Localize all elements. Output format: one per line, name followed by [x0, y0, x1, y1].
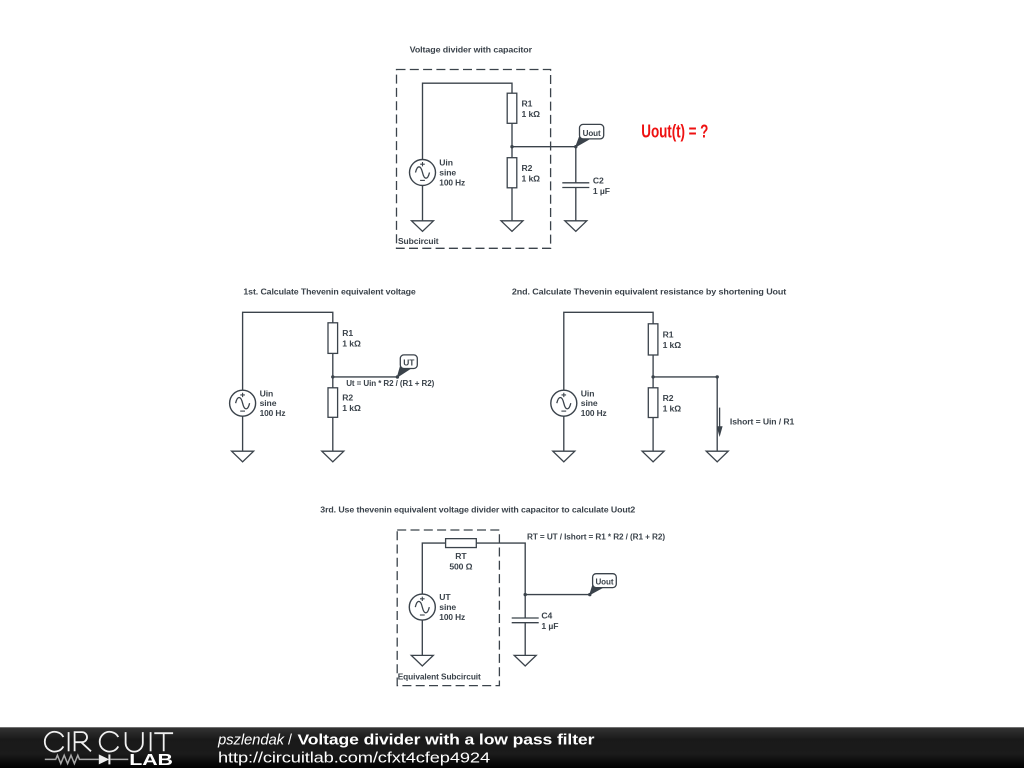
wire node down to C4: [524, 595, 526, 618]
voltage source V3 Uin: [551, 390, 577, 416]
schematic title circuit 2: [243, 287, 416, 297]
wire node to R2 top circuit 2: [332, 377, 334, 388]
flag Uout circuit 4: [590, 574, 617, 595]
svg-text:RT = UT / Ishort = R1 * R2 / (: RT = UT / Ishort = R1 * R2 / (R1 + R2): [527, 532, 665, 542]
ground under V3: [553, 451, 575, 462]
wire V4 bottom to ground: [421, 620, 423, 655]
junction node circuit 3: [651, 375, 654, 378]
annotation red Uout(t) = ?: [641, 121, 708, 142]
svg-text:Uout: Uout: [595, 577, 613, 587]
svg-text:R1: R1: [342, 328, 353, 338]
annotation RT formula: [527, 532, 665, 542]
wire V1 bottom to ground: [422, 186, 424, 221]
wire short branch down to ground: [716, 377, 718, 451]
schematic title circuit 1: [410, 45, 533, 55]
svg-text:R1: R1: [522, 98, 533, 108]
svg-text:R2: R2: [342, 393, 353, 403]
wire C4 bottom to ground: [524, 623, 526, 656]
svg-text:http://circuitlab.com/cfxt4cfe: http://circuitlab.com/cfxt4cfep4924: [218, 750, 490, 766]
label V3 Uin sine 100 Hz: [581, 388, 607, 418]
voltage source V1 Uin: [410, 160, 436, 186]
resistor R1 circuit 3: [648, 324, 658, 355]
footer url: [218, 750, 490, 766]
junction node R1 R2: [510, 145, 513, 148]
svg-text:1 kΩ: 1 kΩ: [342, 403, 361, 413]
svg-text:pszlendak/Voltage divider with: pszlendak/Voltage divider with a low pas…: [217, 733, 595, 749]
svg-text:1 µF: 1 µF: [593, 186, 610, 196]
label RT 500 Ohm: [449, 551, 472, 572]
svg-text:1 kΩ: 1 kΩ: [522, 109, 541, 119]
wire node to UT flag node: [333, 376, 398, 378]
svg-text:RT: RT: [455, 551, 467, 561]
resistor R2 circuit 2: [328, 388, 338, 418]
current arrow Ishort: [717, 408, 723, 437]
svg-text:C4: C4: [541, 611, 552, 621]
schematic title circuit 3: [512, 287, 787, 297]
annotation Ishort formula: [730, 417, 795, 427]
svg-text:100 Hz: 100 Hz: [581, 408, 607, 418]
wire V3 top to R1 top circuit 3: [564, 312, 653, 390]
svg-text:1st. Calculate Thevenin equiva: 1st. Calculate Thevenin equivalent volta…: [243, 287, 416, 297]
svg-text:100 Hz: 100 Hz: [439, 178, 465, 188]
wire R1 to node circuit 2: [332, 353, 334, 377]
wire C2 bottom to ground: [575, 188, 577, 221]
wire R1 bottom to node: [511, 123, 513, 146]
svg-text:2nd. Calculate Thevenin equiva: 2nd. Calculate Thevenin equivalent resis…: [512, 287, 787, 297]
junction node C4: [524, 593, 527, 596]
flag UT: [397, 355, 417, 377]
svg-text:sine: sine: [439, 602, 456, 612]
svg-text:sine: sine: [581, 398, 598, 408]
junction node Uout: [574, 145, 577, 148]
label C2 1 uF: [593, 176, 610, 197]
footer credit line: [217, 733, 595, 749]
wire node to R2 top circuit 3: [652, 377, 654, 388]
svg-text:LAB: LAB: [129, 752, 173, 768]
wire R2 bottom to ground: [511, 188, 513, 221]
svg-text:1 kΩ: 1 kΩ: [522, 173, 541, 183]
flag Uout circuit 1: [576, 124, 604, 146]
svg-text:Uin: Uin: [260, 388, 274, 398]
label R1 1 kOhm circuit 2: [342, 328, 361, 349]
ground under R2 circuit 2: [322, 451, 344, 462]
svg-text:1 kΩ: 1 kΩ: [342, 339, 361, 349]
svg-text:sine: sine: [439, 168, 456, 178]
label R2 1 kOhm circuit 3: [663, 393, 682, 414]
resistor R1: [507, 93, 517, 123]
wire V4 top to RT left: [422, 543, 445, 594]
resistor R2 circuit 3: [648, 388, 658, 418]
ground under V4: [411, 655, 433, 666]
node Uout2: [588, 593, 591, 596]
label Equivalent Subcircuit: [398, 671, 481, 681]
svg-text:R2: R2: [663, 393, 674, 403]
label V4 UT sine 100 Hz: [439, 592, 465, 622]
svg-text:Ishort = Uin / R1: Ishort = Uin / R1: [730, 417, 795, 427]
footer bar: [0, 727, 1024, 768]
ground under short branch: [706, 451, 728, 462]
svg-text:100 Hz: 100 Hz: [439, 612, 465, 622]
subcircuit dashed box: [397, 70, 551, 249]
voltage source V2 Uin: [230, 390, 256, 416]
resistor RT: [446, 539, 477, 548]
wire node to short branch: [653, 376, 717, 378]
node UT: [396, 375, 399, 378]
logo resistor zigzag and diode: [45, 754, 129, 764]
wire V2 top to R1 top: [243, 312, 333, 390]
label V2 Uin sine 100 Hz: [260, 388, 286, 418]
svg-text:C2: C2: [593, 176, 604, 186]
wire V2 bottom to ground: [242, 416, 244, 451]
label C4 1 uF: [541, 611, 558, 632]
resistor R2: [507, 158, 517, 188]
svg-text:Subcircuit: Subcircuit: [398, 236, 439, 246]
svg-text:R2: R2: [522, 163, 533, 173]
logo CIRCUIT lettering: [45, 732, 173, 752]
schematic title circuit 4: [320, 505, 635, 515]
svg-text:UT: UT: [439, 592, 451, 602]
wire node to Uout2 flag node: [525, 594, 590, 596]
wire Uout node down to C2: [575, 147, 577, 183]
wire R2 bottom to ground circuit 2: [332, 417, 334, 451]
label R1 1 kOhm: [522, 98, 541, 119]
annotation Ut formula: [346, 378, 434, 388]
svg-text:Uin: Uin: [581, 388, 595, 398]
svg-text:R1: R1: [663, 330, 674, 340]
svg-text:1 µF: 1 µF: [541, 621, 558, 631]
ground under C2: [565, 221, 587, 232]
ground under C4: [514, 655, 536, 666]
logo LAB lettering: [129, 752, 173, 768]
svg-text:500 Ω: 500 Ω: [449, 562, 472, 572]
equivalent subcircuit dashed box: [397, 530, 499, 686]
capacitor C4: [512, 618, 539, 623]
resistor R1 circuit 2: [328, 323, 338, 354]
capacitor C2: [562, 183, 589, 188]
ground under R2: [501, 221, 523, 232]
svg-text:Uin: Uin: [439, 158, 453, 168]
wire node to R2 top: [511, 147, 513, 158]
svg-text:1 kΩ: 1 kΩ: [663, 403, 682, 413]
svg-text:3rd. Use thevenin equivalent v: 3rd. Use thevenin equivalent voltage div…: [320, 505, 635, 515]
ground under R2 circuit 3: [642, 451, 664, 462]
label Subcircuit: [398, 236, 439, 246]
svg-text:1 kΩ: 1 kΩ: [663, 340, 682, 350]
svg-text:sine: sine: [260, 398, 277, 408]
junction node short branch: [716, 375, 719, 378]
svg-text:100 Hz: 100 Hz: [260, 408, 286, 418]
junction node circuit 2: [331, 375, 334, 378]
svg-text:Uout: Uout: [583, 128, 601, 138]
voltage source V4 UT: [409, 594, 435, 620]
wire R1 to node circuit 3: [652, 355, 654, 377]
wire V3 bottom to ground: [563, 416, 565, 451]
svg-text:Equivalent Subcircuit: Equivalent Subcircuit: [398, 671, 481, 681]
wire node to C2 node: [512, 146, 576, 148]
label V1 Uin sine 100 Hz: [439, 158, 465, 188]
svg-text:Ut = Uin * R2 / (R1 + R2): Ut = Uin * R2 / (R1 + R2): [346, 378, 434, 388]
wire V1 top to R1 top: [423, 83, 513, 159]
svg-text:UT: UT: [403, 357, 415, 367]
wire R2 bottom to ground circuit 3: [652, 418, 654, 452]
ground under V2: [232, 451, 254, 462]
label R2 1 kOhm: [522, 163, 541, 184]
label R1 1 kOhm circuit 3: [663, 330, 682, 351]
label R2 1 kOhm circuit 2: [342, 393, 361, 414]
svg-text:Voltage divider with capacitor: Voltage divider with capacitor: [410, 45, 533, 55]
wire RT right to C4 node: [476, 543, 525, 595]
ground under V1: [412, 221, 434, 232]
svg-text:Uout(t) = ?: Uout(t) = ?: [641, 121, 708, 142]
